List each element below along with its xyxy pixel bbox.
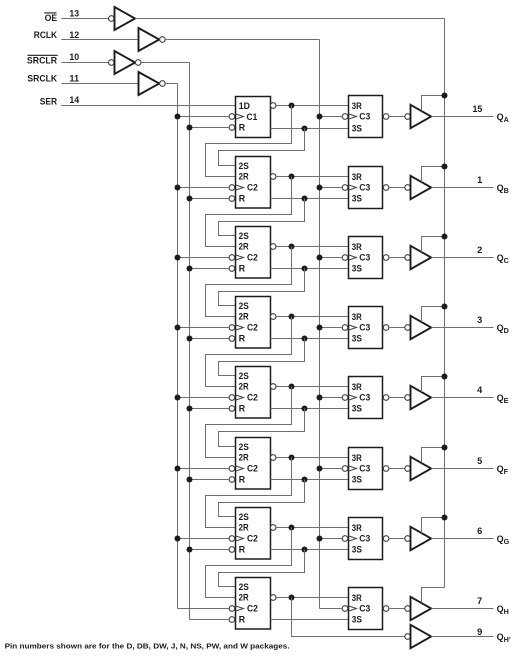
svg-text:R: R <box>239 123 246 133</box>
FF2 complement output bubble <box>270 174 276 180</box>
wire FF6 true output to latch L6 3S input <box>271 479 349 481</box>
wire latch L2 output to buffer U6 <box>389 187 405 189</box>
three-state output buffer U10 (QF) <box>411 457 432 480</box>
FF8 clock wedge C2 <box>236 606 244 611</box>
flip-flop FF1 (stage A, 1D/C1/R) <box>236 97 271 138</box>
FF2 reset input bubble <box>229 196 235 202</box>
svg-text:3R: 3R <box>352 523 363 533</box>
svg-text:3S: 3S <box>352 545 362 555</box>
junction FF3 complement output node <box>289 244 295 250</box>
wire FF8 complement output to QH' buffer <box>292 598 405 637</box>
svg-text:R: R <box>239 475 246 485</box>
buffer U10 input bubble <box>405 466 411 472</box>
wire FF2 true output to FF3 2S input <box>219 199 305 236</box>
svg-text:3R: 3R <box>352 453 363 463</box>
latch L2 (stage B, 3R/C3/3S) <box>349 167 383 209</box>
three-state output buffer U12 (QH) <box>411 597 432 620</box>
wire FF7 complement output to FF8 2R input <box>206 528 292 598</box>
FF1 clock input bubble <box>229 114 235 120</box>
svg-text:C3: C3 <box>359 323 370 333</box>
FF7 reset input bubble <box>229 547 235 553</box>
wire U2 output to RCLK rail <box>165 39 319 41</box>
FF2 clock wedge C2 <box>236 185 244 190</box>
svg-text:R: R <box>239 264 246 274</box>
wire FF6 complement output to latch L6 3R input <box>276 457 348 459</box>
wire buffer U10 to output QF <box>431 468 493 470</box>
svg-text:9: 9 <box>477 627 482 637</box>
junction SRCLK rail row A <box>175 114 181 120</box>
wire SRCLR rail to FF5 R input <box>190 408 230 410</box>
buffer U12 input bubble <box>405 606 411 612</box>
wire OE enable to buffer U7 <box>422 237 445 253</box>
wire FF3 true output to FF4 2S input <box>219 269 305 306</box>
svg-text:3R: 3R <box>352 593 363 603</box>
svg-text:3R: 3R <box>352 382 363 392</box>
inverter U4 (SRCLK buffer) <box>139 72 160 95</box>
flip-flop FF6 (stage F, 2S/2R/C2/R) <box>236 438 271 490</box>
junction FF5 complement output node <box>289 384 295 390</box>
junction FF4 complement output node <box>289 314 295 320</box>
wire latch L5 output to buffer U9 <box>389 397 405 399</box>
svg-text:4: 4 <box>477 385 483 395</box>
FF3 clock input bubble <box>229 255 235 261</box>
wire SRCLK rail to FF4 clock input <box>178 327 230 329</box>
FF6 complement output bubble <box>270 455 276 461</box>
buffer U11 input bubble <box>405 536 411 542</box>
svg-text:C2: C2 <box>247 253 258 263</box>
junction OE rail row A <box>442 93 448 99</box>
latch L5 clock wedge C3 <box>349 395 357 400</box>
three-state output buffer U9 (QE) <box>411 386 432 409</box>
svg-text:C2: C2 <box>247 393 258 403</box>
wire FF5 complement output to latch L5 3R input <box>276 386 348 388</box>
svg-text:R: R <box>239 404 246 414</box>
junction OE rail row G <box>442 515 448 521</box>
latch L6 (stage F, 3R/C3/3S) <box>349 448 383 490</box>
junction SRCLR rail row C <box>187 266 193 272</box>
latch L2 clock input bubble <box>342 185 348 191</box>
wire OE enable to buffer U11 <box>422 518 445 534</box>
junction FF2 true output node <box>302 196 308 202</box>
svg-text:SER: SER <box>40 96 58 106</box>
wire FF6 complement output to FF7 2R input <box>206 458 292 528</box>
svg-text:2R: 2R <box>239 523 250 533</box>
wire buffer U8 to output QD <box>431 327 493 329</box>
junction FF7 complement output node <box>289 525 295 531</box>
wire latch L1 output to buffer U5 <box>389 116 405 118</box>
wire OE enable to buffer U8 <box>422 307 445 323</box>
junction RCLK rail row A <box>317 114 323 120</box>
svg-text:10: 10 <box>69 52 79 62</box>
wire RCLK rail to latch L5 C3 input <box>320 397 343 399</box>
FF5 complement output bubble <box>270 384 276 390</box>
junction RCLK rail row B <box>317 185 323 191</box>
FF4 complement output bubble <box>270 314 276 320</box>
net RCLK vertical rail <box>319 40 321 609</box>
svg-text:2R: 2R <box>239 242 250 252</box>
wire FF8 true output to latch L8 3S input <box>271 619 349 621</box>
FF8 reset input bubble <box>229 617 235 623</box>
svg-text:6: 6 <box>477 526 482 536</box>
wire FF4 true output to FF5 2S input <box>219 339 305 376</box>
junction FF7 true output node <box>302 547 308 553</box>
junction OE rail row D <box>442 304 448 310</box>
junction SRCLR rail row G <box>187 547 193 553</box>
input label SRCLR (active low) <box>27 55 58 65</box>
wire latch L6 output to buffer U10 <box>389 468 405 470</box>
junction SRCLR rail row A <box>187 125 193 131</box>
svg-text:C2: C2 <box>247 464 258 474</box>
junction SRCLK rail row D <box>175 325 181 331</box>
svg-text:SRCLK: SRCLK <box>27 74 57 84</box>
junction RCLK rail row D <box>317 325 323 331</box>
junction SRCLK rail row B <box>175 185 181 191</box>
junction OE rail row F <box>442 445 448 451</box>
svg-text:C3: C3 <box>359 604 370 614</box>
wire SRCLK rail to FF1 clock input <box>178 116 230 118</box>
FF1 reset input bubble <box>229 125 235 131</box>
wire FF1 true output to latch L1 3S input <box>271 128 349 130</box>
svg-text:C3: C3 <box>359 183 370 193</box>
wire latch L3 output to buffer U7 <box>389 257 405 259</box>
wire FF2 true output to latch L2 3S input <box>271 198 349 200</box>
junction OE rail row B <box>442 164 448 170</box>
wire U3 output to SRCLR rail <box>141 62 189 64</box>
wire buffer U7 to output QC <box>431 257 493 259</box>
three-state output buffer U6 (QB) <box>411 176 432 199</box>
svg-text:C2: C2 <box>247 183 258 193</box>
junction FF1 complement output node <box>289 103 295 109</box>
buffer U7 input bubble <box>405 255 411 261</box>
latch L4 output bubble <box>383 325 389 331</box>
wire OE enable to buffer U6 <box>422 167 445 183</box>
FF7 clock input bubble <box>229 536 235 542</box>
wire SRCLR input to inverter U3 <box>61 62 108 64</box>
wire SRCLK input to buffer U4 <box>61 83 138 85</box>
svg-text:3R: 3R <box>352 172 363 182</box>
svg-text:R: R <box>239 334 246 344</box>
svg-text:2S: 2S <box>239 161 249 171</box>
FF3 reset input bubble <box>229 266 235 272</box>
buffer U8 input bubble <box>405 325 411 331</box>
wire SRCLK rail to FF5 clock input <box>178 397 230 399</box>
buffer U9 input bubble <box>405 395 411 401</box>
wire FF7 true output to FF8 2S input <box>219 550 305 587</box>
wire SRCLK rail to FF3 clock input <box>178 257 230 259</box>
svg-text:R: R <box>239 545 246 555</box>
FF4 clock input bubble <box>229 325 235 331</box>
wire FF2 complement output to FF3 2R input <box>206 177 292 247</box>
junction RCLK rail row F <box>317 466 323 472</box>
wire buffer U12 to output QH <box>431 608 493 610</box>
wire OE enable to buffer U12 <box>422 588 445 604</box>
wire RCLK rail to latch L1 C3 input <box>320 116 343 118</box>
wire FF1 complement output to FF2 2R input <box>206 106 292 177</box>
wire buffer U6 to output QB <box>431 187 493 189</box>
wire FF4 complement output to latch L4 3R input <box>276 316 348 318</box>
three-state output buffer U7 (QC) <box>411 246 432 269</box>
svg-text:2R: 2R <box>239 453 250 463</box>
latch L4 clock wedge C3 <box>349 325 357 330</box>
flip-flop FF4 (stage D, 2S/2R/C2/R) <box>236 297 271 349</box>
net SRCLR vertical rail <box>189 63 191 620</box>
latch L4 (stage D, 3R/C3/3S) <box>349 307 383 349</box>
svg-text:7: 7 <box>477 596 482 606</box>
junction FF3 true output node <box>302 266 308 272</box>
svg-text:Pin numbers shown are for the: Pin numbers shown are for the D, DB, DW,… <box>5 641 290 650</box>
wire SRCLK rail to FF2 clock input <box>178 187 230 189</box>
junction SRCLR rail row F <box>187 477 193 483</box>
wire RCLK rail to latch L4 C3 input <box>320 327 343 329</box>
three-state output buffer U11 (QG) <box>411 527 432 550</box>
junction RCLK rail row E <box>317 395 323 401</box>
FF5 clock input bubble <box>229 395 235 401</box>
flip-flop FF3 (stage C, 2S/2R/C2/R) <box>236 227 271 279</box>
latch L3 clock wedge C3 <box>349 255 357 260</box>
svg-text:R: R <box>239 194 246 204</box>
svg-text:2S: 2S <box>239 301 249 311</box>
net SRCLK vertical rail <box>177 84 179 609</box>
latch L8 clock input bubble <box>342 606 348 612</box>
wire U4 output to SRCLK rail <box>165 83 177 85</box>
latch L8 output bubble <box>383 606 389 612</box>
svg-text:C2: C2 <box>247 604 258 614</box>
buffer U5 input bubble <box>405 114 411 120</box>
wire buffer U5 to output QA <box>431 116 493 118</box>
flip-flop FF2 (stage B, 2S/2R/C2/R) <box>236 157 271 209</box>
svg-text:3R: 3R <box>352 242 363 252</box>
svg-text:11: 11 <box>69 74 79 84</box>
svg-text:12: 12 <box>69 30 79 40</box>
svg-text:3S: 3S <box>352 475 362 485</box>
svg-text:5: 5 <box>477 456 482 466</box>
flip-flop FF7 (stage G, 2S/2R/C2/R) <box>236 508 271 560</box>
wire FF5 true output to latch L5 3S input <box>271 408 349 410</box>
inverter U3 (SRCLR buffer) <box>115 51 136 74</box>
wire FF3 complement output to FF4 2R input <box>206 247 292 317</box>
latch L4 clock input bubble <box>342 325 348 331</box>
wire latch L4 output to buffer U8 <box>389 327 405 329</box>
svg-text:3S: 3S <box>352 334 362 344</box>
FF5 reset input bubble <box>229 406 235 412</box>
FF6 reset input bubble <box>229 477 235 483</box>
wire SRCLR rail to FF2 R input <box>190 198 230 200</box>
wire FF7 true output to latch L7 3S input <box>271 549 349 551</box>
latch L6 output bubble <box>383 466 389 472</box>
wire FF4 true output to latch L4 3S input <box>271 338 349 340</box>
FF7 complement output bubble <box>270 525 276 531</box>
svg-text:3S: 3S <box>352 194 362 204</box>
junction OE rail row E <box>442 374 448 380</box>
FF8 clock input bubble <box>229 606 235 612</box>
svg-text:2S: 2S <box>239 371 249 381</box>
svg-text:1D: 1D <box>239 101 250 111</box>
latch L8 (stage H, 3R/C3/3S) <box>349 588 383 630</box>
flip-flop FF8 (stage H, 2S/2R/C2/R) <box>236 578 271 630</box>
svg-text:C3: C3 <box>359 393 370 403</box>
svg-text:C3: C3 <box>359 253 370 263</box>
junction FF4 true output node <box>302 336 308 342</box>
wire FF1 complement output to latch L1 3R input <box>276 105 348 107</box>
flip-flop FF5 (stage E, 2S/2R/C2/R) <box>236 367 271 419</box>
inverter U1 input bubble <box>109 16 115 22</box>
wire FF4 complement output to FF5 2R input <box>206 317 292 387</box>
wire FF5 complement output to FF6 2R input <box>206 387 292 458</box>
FF4 clock wedge C2 <box>236 325 244 330</box>
output buffer U13 (QH') <box>411 625 432 648</box>
svg-text:SRCLR: SRCLR <box>27 56 58 66</box>
latch L8 clock wedge C3 <box>349 606 357 611</box>
svg-text:2R: 2R <box>239 172 250 182</box>
junction FF6 true output node <box>302 477 308 483</box>
FF3 complement output bubble <box>270 244 276 250</box>
latch L3 output bubble <box>383 255 389 261</box>
wire SRCLR rail to FF1 R input <box>190 127 230 129</box>
FF7 clock wedge C2 <box>236 536 244 541</box>
svg-text:3: 3 <box>477 315 482 325</box>
svg-text:C3: C3 <box>359 464 370 474</box>
svg-text:1: 1 <box>477 175 482 185</box>
svg-text:C1: C1 <box>247 112 258 122</box>
wire SRCLR rail to FF3 R input <box>190 268 230 270</box>
FF2 clock input bubble <box>229 185 235 191</box>
latch L6 clock wedge C3 <box>349 466 357 471</box>
latch L2 clock wedge C3 <box>349 185 357 190</box>
latch L7 clock input bubble <box>342 536 348 542</box>
wire U1 output to OE rail <box>135 18 444 20</box>
junction SRCLK rail row E <box>175 395 181 401</box>
latch L1 (stage A, 3R/C3/3S) <box>349 96 383 138</box>
FF3 clock wedge C2 <box>236 255 244 260</box>
buffer U6 input bubble <box>405 185 411 191</box>
latch L1 clock input bubble <box>342 114 348 120</box>
svg-text:2: 2 <box>477 245 482 255</box>
buffer U13 input bubble <box>405 634 411 640</box>
latch L7 output bubble <box>383 536 389 542</box>
wire OE enable to buffer U10 <box>422 448 445 464</box>
input label OE (active low) <box>44 13 57 23</box>
wire SER to FF1 1D input <box>61 105 235 107</box>
svg-text:14: 14 <box>69 95 80 105</box>
wire SRCLK rail to FF7 clock input <box>178 538 230 540</box>
wire buffer U13 to output QH' <box>431 636 493 638</box>
inverter U4 output bubble <box>160 81 166 87</box>
junction SRCLK rail row G <box>175 536 181 542</box>
wire latch L7 output to buffer U11 <box>389 538 405 540</box>
svg-text:RCLK: RCLK <box>34 30 58 40</box>
junction SRCLR rail row E <box>187 406 193 412</box>
svg-text:R: R <box>239 615 246 625</box>
svg-text:2S: 2S <box>239 582 249 592</box>
latch L2 output bubble <box>383 185 389 191</box>
latch L5 (stage E, 3R/C3/3S) <box>349 377 383 419</box>
FF1 complement output bubble <box>270 103 276 109</box>
latch L5 output bubble <box>383 395 389 401</box>
svg-text:2S: 2S <box>239 512 249 522</box>
svg-text:2R: 2R <box>239 382 250 392</box>
junction SRCLK rail row C <box>175 255 181 261</box>
junction RCLK rail row G <box>317 536 323 542</box>
latch L1 output bubble <box>383 114 389 120</box>
wire FF5 true output to FF6 2S input <box>219 409 305 447</box>
svg-text:13: 13 <box>69 9 79 19</box>
svg-text:C3: C3 <box>359 534 370 544</box>
wire FF3 true output to latch L3 3S input <box>271 268 349 270</box>
svg-text:C3: C3 <box>359 112 370 122</box>
svg-text:2R: 2R <box>239 593 250 603</box>
svg-text:2R: 2R <box>239 312 250 322</box>
wire FF2 complement output to latch L2 3R input <box>276 176 348 178</box>
wire FF3 complement output to latch L3 3R input <box>276 246 348 248</box>
three-state output buffer U5 (QA) <box>411 105 432 128</box>
wire RCLK rail to latch L3 C3 input <box>320 257 343 259</box>
wire FF8 complement output to latch L8 3R input <box>276 597 348 599</box>
latch L5 clock input bubble <box>342 395 348 401</box>
wire SRCLK rail to FF6 clock input <box>178 468 230 470</box>
wire buffer U11 to output QG <box>431 538 493 540</box>
wire RCLK rail to latch L7 C3 input <box>320 538 343 540</box>
wire RCLK rail to latch L6 C3 input <box>320 468 343 470</box>
wire RCLK input to buffer U2 <box>61 39 138 41</box>
latch L7 (stage G, 3R/C3/3S) <box>349 518 383 560</box>
junction FF1 true output node <box>302 126 308 132</box>
FF6 clock wedge C2 <box>236 466 244 471</box>
inverter U3 input bubble <box>109 60 115 66</box>
net OE rail vertical <box>444 19 446 588</box>
svg-text:2S: 2S <box>239 442 249 452</box>
svg-text:C2: C2 <box>247 534 258 544</box>
latch L3 clock input bubble <box>342 255 348 261</box>
FF4 reset input bubble <box>229 336 235 342</box>
svg-text:3R: 3R <box>352 101 363 111</box>
FF8 complement output bubble <box>270 595 276 601</box>
svg-text:3S: 3S <box>352 264 362 274</box>
junction FF5 true output node <box>302 406 308 412</box>
latch L3 (stage C, 3R/C3/3S) <box>349 237 383 279</box>
junction FF2 complement output node <box>289 174 295 180</box>
latch L6 clock input bubble <box>342 466 348 472</box>
wire FF7 complement output to latch L7 3R input <box>276 527 348 529</box>
wire SRCLK rail to FF8 clock input <box>178 608 230 610</box>
junction SRCLR rail row D <box>187 336 193 342</box>
svg-text:3S: 3S <box>352 615 362 625</box>
svg-text:3R: 3R <box>352 312 363 322</box>
junction SRCLR rail row B <box>187 196 193 202</box>
three-state output buffer U8 (QD) <box>411 316 432 339</box>
wire OE enable to buffer U5 <box>422 96 445 112</box>
junction OE rail row C <box>442 234 448 240</box>
wire SRCLR rail to FF8 R input <box>190 619 230 621</box>
svg-text:C2: C2 <box>247 323 258 333</box>
junction SRCLK rail row F <box>175 466 181 472</box>
inverter U2 (RCLK buffer) <box>139 28 160 51</box>
wire latch L8 output to buffer U12 <box>389 608 405 610</box>
inverter U1 (OE buffer) <box>115 7 136 30</box>
junction RCLK rail row C <box>317 255 323 261</box>
wire RCLK rail to latch L2 C3 input <box>320 187 343 189</box>
latch L7 clock wedge C3 <box>349 536 357 541</box>
svg-text:3S: 3S <box>352 404 362 414</box>
wire OE input to inverter U1 <box>61 18 108 20</box>
wire FF6 true output to FF7 2S input <box>219 480 305 517</box>
junction FF6 complement output node <box>289 455 295 461</box>
wire buffer U9 to output QE <box>431 397 493 399</box>
wire SRCLR rail to FF4 R input <box>190 338 230 340</box>
junction FF8 complement output node <box>289 595 295 601</box>
wire OE enable to buffer U9 <box>422 377 445 393</box>
FF1 clock wedge C1 <box>236 114 244 119</box>
svg-text:3S: 3S <box>352 124 362 134</box>
